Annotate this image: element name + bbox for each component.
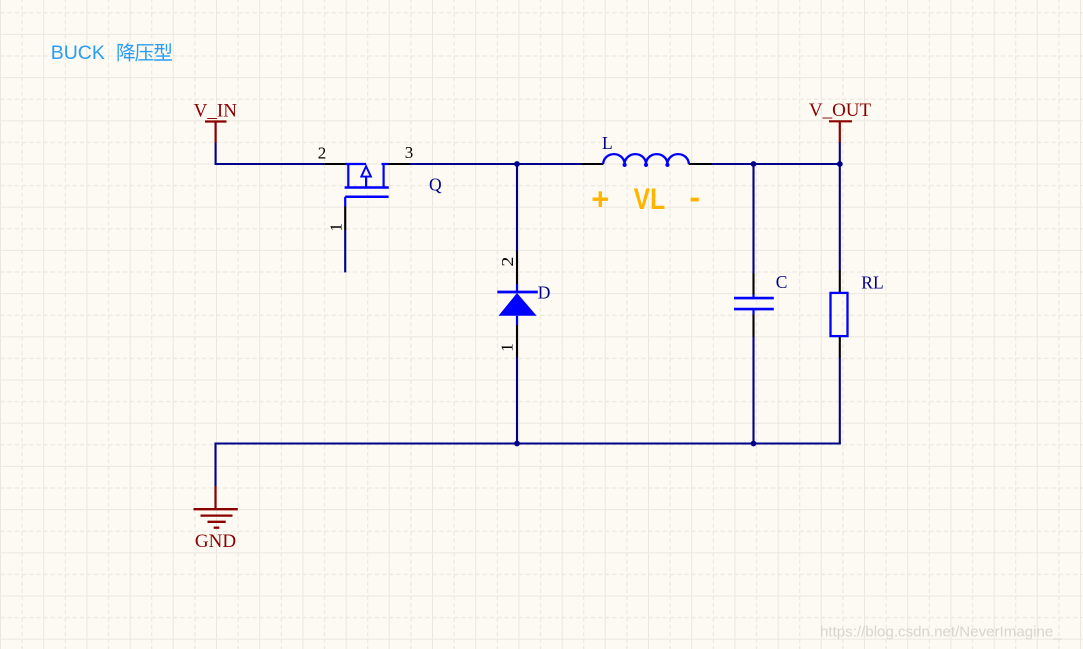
title 降压型 (CJK outlines) [118,43,173,61]
inductor joint bumps [623,163,627,167]
transistor Q (MOSFET) body [345,164,389,207]
wire cap branch upper [752,164,754,274]
resistor RL body [831,293,848,336]
svg-text:C: C [776,272,788,292]
power port V_OUT [829,121,852,143]
svg-text:VL: VL [634,183,666,216]
wire cap branch lower [752,336,754,443]
svg-text:3: 3 [405,143,414,162]
svg-text:V_OUT: V_OUT [809,100,872,121]
wire Q pin3 to L [410,163,582,165]
pin 3 of Q [388,163,410,165]
svg-text:GND: GND [195,531,236,552]
diode D pin stubs (blue) [516,284,518,325]
svg-text:V_IN: V_IN [194,101,238,122]
pin 2 of Q [324,163,346,165]
pins of L [582,163,604,165]
svg-text:+: + [591,181,609,216]
svg-text:Q: Q [429,175,442,195]
junction node Q drain / D cathode [514,161,520,167]
svg-text:RL: RL [861,272,883,292]
diode D cathode bar [497,291,538,294]
power port V_IN [205,122,227,144]
junction node C / gnd rail [751,441,757,447]
svg-text:1: 1 [327,223,346,232]
wire diode branch upper [516,164,518,251]
pin 1 of Q (gate) [344,206,346,230]
svg-text:-: - [689,179,700,215]
ground bars [194,509,238,528]
svg-text:1: 1 [498,343,517,352]
wire V_IN stem [215,143,217,165]
junction node V_OUT / RL [837,161,843,167]
svg-text:D: D [538,282,551,302]
pins of C [752,274,754,296]
wire V_OUT stem lower [839,143,841,165]
svg-text:https://blog.csdn.net/NeverIma: https://blog.csdn.net/NeverImagine_ [820,624,1062,641]
junction node V_OUT / C [751,161,757,167]
svg-text:L: L [602,133,613,153]
wire top left (V_IN corner to Q pin2) [216,163,325,164]
wire Q gate dangling [344,230,346,273]
wire RL branch lower [839,357,841,444]
wire L to V_OUT/RL [712,163,840,165]
inductor L coil [603,154,689,164]
wire bottom rail [216,442,840,486]
wire RL branch upper [839,164,841,271]
capacitor C pin stubs (blue) [752,295,754,315]
junction node D anode / gnd rail [514,441,520,447]
svg-text:BUCK: BUCK [51,42,105,64]
svg-text:2: 2 [498,257,517,267]
svg-text:2: 2 [318,144,327,163]
pin 2 of D [516,251,518,285]
diode D anode triangle [499,293,537,316]
wire diode branch lower [516,357,518,444]
pin 1 of D [516,325,518,358]
pins of RL [839,270,841,293]
ground stem (red) [214,486,216,509]
capacitor C plates [734,298,774,309]
